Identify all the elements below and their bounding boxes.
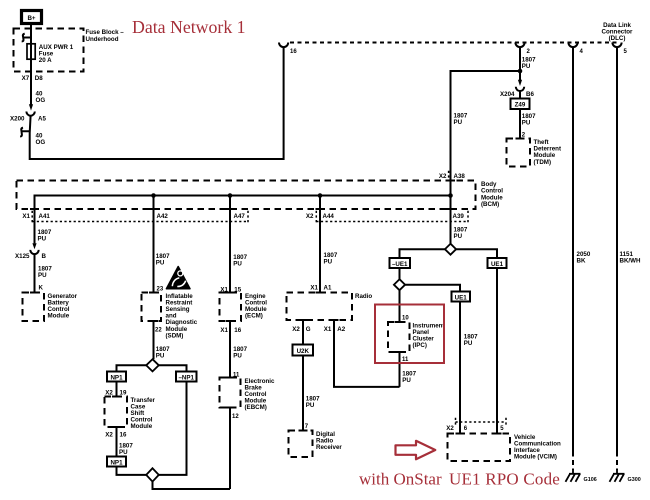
transfer case shift control module dashed box [105, 397, 128, 428]
connector X200 A5 [10, 104, 46, 122]
svg-text:PU: PU [464, 340, 473, 347]
svg-text:PU: PU [119, 449, 128, 456]
pin X1 15 [220, 287, 241, 294]
pin tick receiver top [299, 430, 308, 432]
svg-text:UE1: UE1 [455, 294, 468, 301]
svg-text:X2: X2 [446, 425, 454, 432]
pin tick VCIM 6 [456, 433, 465, 435]
svg-text:B+: B+ [27, 15, 35, 22]
pin tick [516, 138, 525, 140]
wire DLC4 to ground [572, 47, 574, 451]
svg-text:10: 10 [402, 316, 409, 322]
svg-text:Radio: Radio [355, 293, 372, 300]
svg-text:(BCM): (BCM) [481, 201, 499, 208]
svg-text:PU: PU [233, 261, 242, 268]
pin tick A39 [446, 208, 455, 210]
wire label 1807 PU [38, 229, 52, 243]
pin tick ECM top [226, 292, 235, 294]
wire label 1807 PU [324, 252, 338, 266]
svg-text:A5: A5 [38, 116, 46, 123]
wire label 1807 PU [119, 443, 133, 457]
wire S3 to UE1 [456, 249, 497, 258]
svg-text:Underhood: Underhood [86, 36, 119, 43]
wire splice to -NP1 [159, 365, 187, 371]
junction node A42 [151, 193, 156, 198]
svg-text:PU: PU [156, 260, 165, 267]
pin X1 A1 [310, 284, 332, 291]
pin tick A42 [149, 208, 158, 210]
svg-text:X1: X1 [220, 327, 228, 334]
wire X200 to DLC pin 16 [30, 47, 284, 159]
theft deterrent module TDM dashed box [507, 139, 531, 167]
option box -NP1 [176, 372, 197, 382]
svg-text:with OnStar: with OnStar [359, 470, 442, 489]
pin tick ECM bottom [226, 320, 235, 322]
junction dot [518, 69, 523, 74]
fuse block underhood dashed box [14, 29, 84, 72]
pin tick A41 [30, 208, 39, 210]
svg-text:PU: PU [156, 353, 165, 360]
label IPC [413, 322, 445, 349]
junction node A44 [318, 193, 323, 198]
DLC pin 16 [279, 43, 297, 56]
splice diamond S2 [146, 468, 159, 481]
svg-text:PU: PU [38, 236, 47, 243]
option box UE1 [488, 258, 507, 268]
splice diamond S1 [146, 359, 159, 371]
wire label 1807 PU [38, 266, 52, 280]
svg-text:A39: A39 [453, 213, 465, 220]
wire label 40 OG [36, 91, 46, 105]
connector X125 B [15, 243, 46, 260]
radio dashed box [287, 293, 353, 321]
svg-text:A42: A42 [157, 213, 169, 220]
wire S3 to -UE1 [400, 249, 445, 258]
wire S4 to UE1 lower [405, 285, 460, 292]
label transfer case shift control module [131, 397, 156, 430]
svg-text:20 A: 20 A [39, 57, 52, 64]
wire S4 to IPC pin 10 [399, 290, 401, 322]
wire SDM to splice [153, 321, 155, 359]
wire A44 to radio [319, 196, 321, 293]
wire splice to NP1 [117, 365, 147, 371]
svg-text:X204: X204 [500, 91, 515, 98]
svg-text:B: B [42, 253, 47, 260]
pin tick A44 [316, 208, 325, 210]
svg-text:PU: PU [454, 119, 463, 126]
label TDM [534, 139, 562, 166]
svg-text:A44: A44 [323, 213, 335, 220]
pin tick EBCM bottom [226, 407, 235, 409]
generator battery control module dashed box [23, 293, 45, 322]
wire [116, 427, 118, 457]
svg-text:(IPC): (IPC) [413, 342, 427, 349]
connector X2 dotted line [316, 211, 468, 223]
svg-text:22: 22 [155, 328, 162, 334]
svg-text:A2: A2 [337, 326, 345, 333]
svg-text:BK: BK [577, 258, 586, 265]
wire A47 to ECM [229, 196, 231, 293]
ground G106 [566, 470, 597, 483]
svg-text:16: 16 [120, 431, 127, 438]
svg-text:A38: A38 [454, 173, 466, 180]
svg-text:X200: X200 [10, 116, 25, 123]
svg-text:B6: B6 [526, 91, 534, 98]
svg-text:(TDM): (TDM) [534, 159, 552, 166]
label EBCM [245, 378, 275, 411]
svg-text:NP1: NP1 [110, 374, 123, 381]
option box -UE1 [390, 258, 411, 268]
pin tick SDM bottom [149, 320, 158, 322]
svg-text:–UE1: –UE1 [392, 261, 408, 268]
wire branch to BCM A38 [451, 71, 521, 244]
wire label 40 OG [36, 132, 46, 146]
svg-text:K: K [39, 285, 44, 292]
wire NP1 to splice S2 [117, 467, 147, 475]
svg-text:X2: X2 [439, 173, 447, 180]
pin tick VCIM 5 [493, 433, 502, 435]
wire label 1807 PU [522, 113, 536, 127]
wire UE1 to VCIM pin 5 [496, 268, 498, 434]
svg-text:D8: D8 [35, 75, 43, 82]
wire label 1807 PU [522, 57, 536, 71]
svg-text:G106: G106 [584, 477, 597, 483]
wire DLC5 to ground [616, 47, 618, 451]
svg-text:12: 12 [232, 414, 239, 420]
pin X2 A38 [439, 171, 465, 181]
pin tick radio top [316, 292, 325, 294]
wire label 1807 PU [156, 346, 170, 360]
pin tick IPC top [395, 321, 404, 323]
label BCM [481, 181, 503, 208]
svg-text:X2: X2 [105, 431, 113, 438]
wire label 1807 PU [233, 346, 247, 360]
junction node A38/A39 [448, 193, 453, 198]
svg-text:OG: OG [36, 97, 46, 104]
option box NP1 [107, 372, 126, 382]
svg-text:X7: X7 [22, 75, 30, 82]
label digital radio receiver [316, 431, 342, 451]
svg-text:PU: PU [402, 377, 411, 384]
svg-text:PU: PU [454, 233, 463, 240]
svg-text:Module: Module [48, 313, 70, 320]
junction node A47 [228, 193, 233, 198]
DLC pin 4 [568, 43, 583, 56]
fuse clip hook [22, 34, 31, 42]
svg-text:PU: PU [306, 402, 315, 409]
pin tick [30, 292, 39, 294]
svg-text:(DLC): (DLC) [609, 35, 626, 42]
wire [519, 91, 521, 139]
pin tick EBCM top [226, 377, 235, 379]
svg-text:OG: OG [36, 139, 46, 146]
wire splice S2 to EBCM wire [153, 482, 231, 489]
wire label 1807 PU [402, 371, 416, 385]
svg-text:–NP1: –NP1 [178, 374, 194, 381]
option box U2K [293, 345, 314, 356]
svg-text:16: 16 [290, 49, 297, 55]
svg-text:A1: A1 [324, 284, 332, 291]
svg-text:PU: PU [38, 272, 47, 279]
pin tick radio bottom G [299, 319, 308, 321]
DLC connector dotted line [290, 42, 620, 44]
svg-text:NP1: NP1 [110, 459, 123, 466]
wire radio G to U2K [302, 320, 304, 345]
instrument panel cluster IPC dashed box [388, 322, 410, 352]
wire ECM to EBCM [229, 321, 231, 378]
pin X2 19 [105, 390, 127, 397]
wire X125 to generator module [34, 254, 36, 293]
svg-text:PU: PU [522, 120, 531, 127]
wire A42 to SDM [153, 196, 155, 293]
pin X2 A44 [306, 211, 334, 223]
wire label 1807 PU [454, 113, 468, 127]
battery feed B+ [22, 11, 42, 24]
svg-text:UE1: UE1 [491, 261, 504, 268]
label Fuse Block Underhood [86, 29, 125, 43]
vehicle communication interface module VCIM dashed box [448, 434, 511, 462]
DLC pin 5 [612, 43, 627, 56]
wire radio A2 to IPC 11 [334, 320, 400, 387]
svg-text:Receiver: Receiver [316, 444, 342, 451]
wire label 1807 PU [233, 254, 247, 268]
pin X1 A2 [324, 326, 346, 333]
svg-text:UE1 RPO Code: UE1 RPO Code [449, 470, 560, 489]
wire B+ to fuse [30, 24, 32, 105]
engine control module ECM dashed box [220, 293, 242, 322]
svg-text:PU: PU [324, 259, 333, 266]
pin tick transfer top [112, 396, 121, 398]
electronic brake control module EBCM dashed box [220, 378, 241, 408]
digital radio receiver dashed box [289, 431, 313, 458]
wire label 1807 PU [464, 334, 478, 348]
option box UE1 lower [452, 292, 471, 302]
splice diamond S3 [445, 244, 456, 255]
svg-text:A47: A47 [234, 213, 246, 220]
svg-text:Module: Module [131, 423, 153, 430]
pin tick IPC bottom [395, 351, 404, 353]
ground G300 [610, 470, 641, 483]
body control module BCM dashed box [17, 181, 476, 210]
label Data Link Connector (DLC) [602, 22, 634, 42]
wire DLC2 down [519, 47, 521, 80]
wire label 1807 PU [156, 253, 170, 267]
splice diamond S4 [394, 279, 405, 290]
pin X7 D8 [22, 75, 44, 82]
svg-text:X2: X2 [306, 213, 314, 220]
pin tick transfer bottom [112, 426, 121, 428]
wire -NP1 down to splice S2 [159, 382, 187, 475]
label SDM [166, 293, 198, 340]
option box Z49 [511, 99, 530, 110]
label VCIM [514, 434, 561, 461]
pin X2 G [292, 326, 311, 333]
pin tick radio bottom A2 [330, 319, 339, 321]
label ECM [245, 293, 267, 320]
pin X1 A41 [22, 211, 50, 223]
inflatable restraint SDM dashed box [142, 293, 162, 322]
svg-text:U2K: U2K [297, 348, 310, 355]
wire label 1151 BK/WH [620, 251, 641, 265]
svg-text:16: 16 [234, 327, 241, 334]
svg-text:Data Network 1: Data Network 1 [132, 17, 246, 37]
connector X1 dotted line [32, 211, 248, 223]
svg-text:G: G [306, 326, 311, 333]
svg-text:(EBCM): (EBCM) [245, 404, 267, 411]
svg-text:A41: A41 [39, 213, 51, 220]
svg-text:Module (VCIM): Module (VCIM) [514, 454, 557, 461]
svg-text:BK/WH: BK/WH [620, 258, 641, 265]
wire UE1 lower to VCIM pin 6 [459, 302, 461, 434]
pin X2 16 [105, 431, 127, 438]
wire IPC 11 down [399, 352, 401, 387]
wire label 1807 PU on A39 [454, 227, 468, 241]
red highlight box around IPC [375, 305, 444, 364]
label generator battery control module [48, 293, 78, 320]
wire U2K to digital radio receiver [302, 356, 304, 431]
wire [116, 382, 118, 397]
fuse AUX PWR 1 [27, 44, 74, 64]
wire label 2050 BK [577, 251, 591, 265]
clip hook below X200 [20, 128, 30, 137]
red callout arrow [396, 441, 436, 460]
wire label 1807 PU [306, 396, 320, 410]
pin tick A47 [226, 208, 235, 210]
svg-text:X125: X125 [15, 253, 30, 260]
svg-text:PU: PU [522, 63, 531, 70]
svg-text:(ECM): (ECM) [245, 313, 263, 320]
option box NP1 lower [107, 457, 126, 467]
pin tick SDM [149, 292, 158, 294]
svg-text:Z49: Z49 [515, 102, 526, 109]
connector X2 dotted line VCIM [456, 418, 507, 426]
airbag warning triangle [166, 267, 190, 289]
svg-text:X1: X1 [324, 326, 332, 333]
svg-text:G300: G300 [628, 477, 641, 483]
internal data bus [35, 196, 451, 244]
pin X1 16 [220, 327, 241, 334]
svg-text:(SDM): (SDM) [166, 332, 184, 339]
DLC pin 2 [515, 43, 530, 56]
wire EBCM to splice S2 [229, 408, 231, 490]
svg-text:PU: PU [233, 353, 242, 360]
wire -UE1 to splice S4 [399, 268, 401, 279]
svg-text:X1: X1 [310, 284, 318, 291]
svg-text:X1: X1 [22, 213, 30, 220]
svg-text:X2: X2 [292, 326, 300, 333]
connector X204 B6 [500, 80, 534, 98]
